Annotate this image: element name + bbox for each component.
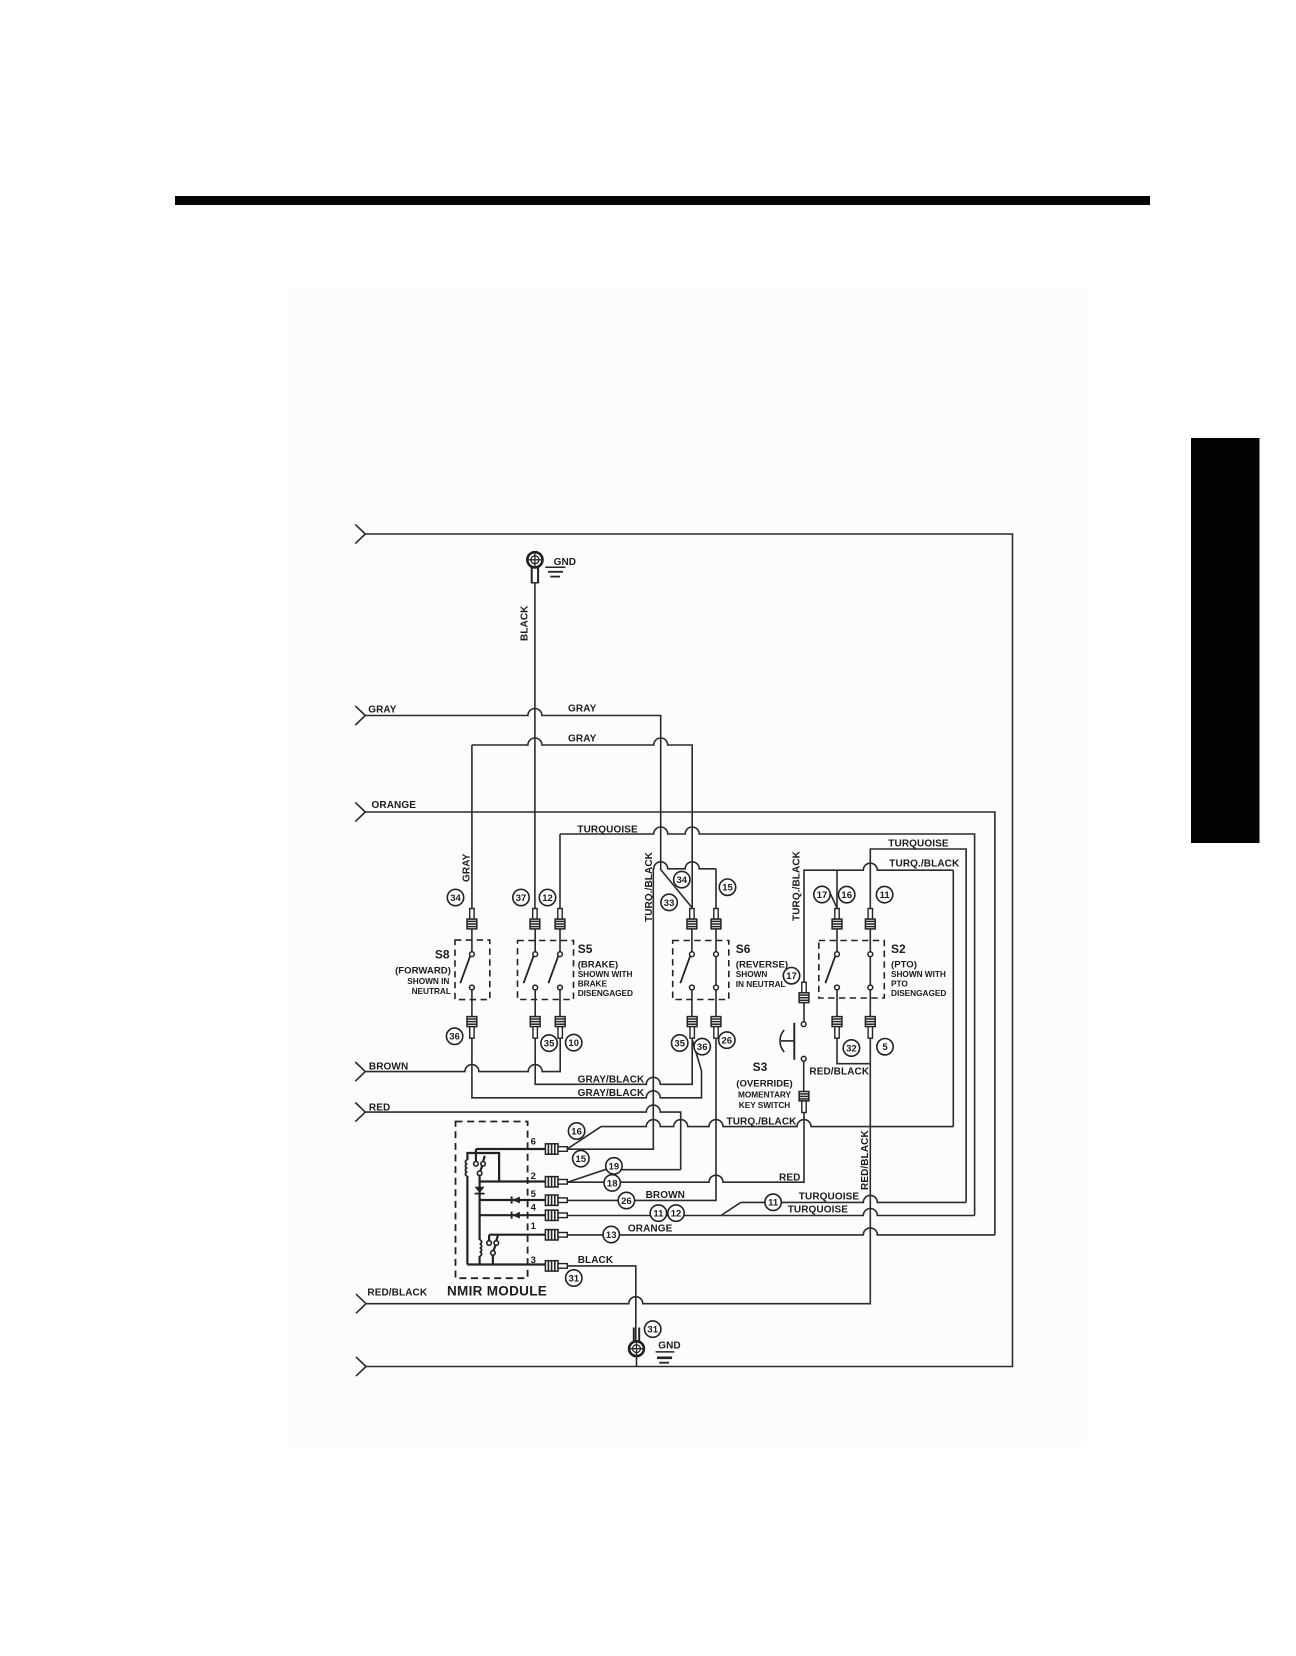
svg-text:16: 16 [841,890,852,901]
svg-text:11: 11 [880,890,891,901]
NMIR diode on pin 4 [512,1212,520,1219]
connector 5 bottom of S2 pole2 [865,1017,875,1039]
wire BLACK from GND to S5 pole1 connector [534,583,536,909]
wire id circle 16 (wire 16 at NMIR pin6) [568,1123,584,1139]
RED entry arrow [355,1103,365,1122]
chapter side tab [1191,438,1260,843]
svg-text:BROWN: BROWN [369,1061,408,1072]
wire RED 19 to NMIR pin2 [568,1170,681,1183]
svg-text:4: 4 [531,1203,537,1214]
wire id circle 12 (wire 12 at NMIR pin4) [668,1205,684,1221]
svg-text:BROWN: BROWN [646,1190,685,1201]
GRAY entry arrow [355,706,365,725]
wire GRAY 1 (entry to S6 pole1, hops BLACK) [365,709,660,871]
NMIR pin 2 connector [545,1177,567,1187]
wire id circle 17 (wire 17 at S2) [814,886,830,902]
connector 12 top of S5 pole2 [555,909,565,929]
wire id circle 13 (wire 13 at NMIR pin1) [603,1226,619,1242]
svg-text:5: 5 [531,1189,537,1200]
svg-text:GRAY/BLACK: GRAY/BLACK [578,1075,645,1086]
wire id circle 15 (wire 15 at NMIR pin6) [573,1150,589,1166]
NMIR diode on pin 5 [512,1196,520,1203]
wire id circle 31 (wire 31 at ground) [645,1321,661,1337]
wire RED entry down to RED 19 run [365,1105,680,1170]
wire id circle 26 (wire 26 at S6 bottom) [719,1032,735,1048]
svg-text:31: 31 [569,1273,580,1284]
svg-text:GRAY: GRAY [368,705,397,716]
wire id circle 15 (wire 15 at S6) [719,879,735,895]
svg-text:1: 1 [531,1221,537,1232]
wire TURQ./BLACK (S6 pole2 down to NMIR pin6) [568,862,717,1149]
wire id circle 11 (wire 11 at S2) [876,886,892,902]
wire RED/BLACK jumper S2 pole1 bottom [837,1039,870,1064]
switch S2 dashed box [819,941,885,999]
svg-text:34: 34 [677,875,688,886]
wire id circle 10 (wire 10 at S5 bottom) [566,1034,582,1050]
ground symbol GND bottom (ring terminal 31) [629,1328,644,1367]
switch S5 dashed box [518,941,574,1000]
NMIR pin 3 bus line [467,1263,545,1265]
svg-text:(OVERRIDE): (OVERRIDE) [736,1079,793,1090]
svg-text:TURQ./BLACK: TURQ./BLACK [644,851,655,922]
wire GRAY/BLACK 2 (S8 bottom to S6 pole1 bottom) [472,1039,702,1098]
NMIR pin 2 line [480,1180,546,1182]
wire TURQUOISE (S2 pole2 loop to NMIR pin4 diagonal) [870,849,966,1202]
svg-text:37: 37 [516,893,527,904]
switch S5 pole 2 [548,929,562,1017]
RED/BLACK entry arrow [356,1294,366,1313]
S3 label block [736,1060,793,1110]
ground symbol GND top (ring terminal) [527,552,542,583]
switch S8 dashed box [455,940,490,1000]
NMIR pin 5 connector [545,1195,567,1205]
harness border wire [365,534,1012,1367]
svg-text:34: 34 [450,893,461,904]
NMIR pin 4 line [480,1214,546,1216]
GND label bottom [656,1341,681,1363]
connector 10 bottom of S5 pole2 [555,1017,565,1039]
wire ORANGE NMIR pin1 run [568,1228,995,1235]
svg-text:36: 36 [697,1042,708,1053]
wire id circle 12 (wire 12 at S5) [539,889,555,905]
svg-text:17: 17 [786,971,797,982]
wire id circle 11 (wire 11 on turquoise run) [765,1194,781,1210]
svg-text:15: 15 [576,1154,587,1165]
svg-text:10: 10 [568,1038,579,1049]
key switch S3 symbol [780,1003,806,1092]
svg-text:36: 36 [449,1032,460,1043]
wire id circle 36 (wire 36 at S8 bottom) [446,1028,462,1044]
wire id circle 34 (wire 34 at S6) [674,871,690,887]
ORANGE entry arrow [355,802,365,821]
wire RED/BLACK entry up to S2 pole2 bottom [366,1039,870,1304]
svg-text:16: 16 [571,1126,582,1137]
wire BLACK NMIR pin3 to ground [568,1266,636,1342]
wire id circle 33 (wire 33 at S6) [661,894,677,910]
border entry arrow bottom [356,1357,366,1376]
wire RED 18 (NMIR pin2 to S3 bottom) [568,1113,805,1183]
svg-text:SHOWN: SHOWN [736,969,768,979]
svg-text:SHOWN WITH: SHOWN WITH [578,969,633,979]
wire id circle 5 (wire 5 at S2 bottom) [877,1039,893,1055]
svg-text:S2: S2 [891,942,906,956]
svg-text:26: 26 [722,1036,733,1047]
svg-text:GRAY: GRAY [568,704,597,715]
svg-text:35: 35 [674,1038,685,1049]
wire id circle 17 (wire 17 at S3) [783,968,799,984]
svg-text:ORANGE: ORANGE [372,800,417,811]
switch S6 pole 2 [714,929,719,1017]
svg-text:35: 35 [544,1039,555,1050]
svg-text:19: 19 [609,1161,620,1172]
wire TURQ./BLACK (S3 / S2 pole1 top run) [804,863,953,982]
wire TURQ./BLACK right vertical [952,870,954,1126]
connector 32 bottom of S2 pole1 [832,1017,842,1039]
svg-text:S5: S5 [578,942,593,956]
svg-text:15: 15 [722,883,733,894]
svg-text:NMIR MODULE: NMIR MODULE [447,1284,547,1299]
wire BROWN (S6 pole2 bottom to NMIR pin5) [568,1039,717,1201]
svg-text:S6: S6 [736,942,751,956]
svg-text:26: 26 [621,1196,632,1207]
svg-text:32: 32 [846,1043,857,1054]
svg-text:6: 6 [531,1137,536,1148]
wire TURQUOISE (S5 pole2 across to right, down to NMIR pin4) [559,834,561,909]
svg-text:TURQUOISE: TURQUOISE [888,838,949,849]
connector 17/16 top of S2 pole1 [832,909,842,929]
wire TURQUOISE NMIR pin4 run [568,1209,975,1216]
svg-text:2: 2 [531,1171,536,1182]
svg-text:RED/BLACK: RED/BLACK [809,1067,869,1078]
scan background tint [288,288,1087,1447]
wire id circle 34 (wire 34 at S8) [447,889,463,905]
NMIR pin 5 line [480,1199,546,1201]
wire GRAY 2 (S8 to S6 pole1, hops BLACK and GRAY1) [472,738,692,908]
svg-text:11: 11 [653,1209,664,1220]
wire ORANGE (entry down to NMIR pin1 line) [365,812,995,1235]
svg-text:PTO: PTO [891,979,908,989]
svg-text:RED: RED [779,1172,800,1183]
border entry arrow top [355,524,365,543]
NMIR relay2 coil branch [479,1200,481,1265]
svg-text:5: 5 [882,1042,888,1053]
S5 label block [578,942,633,998]
wire id circle 35 (wire 35 at S6 bottom) [672,1035,688,1051]
connector 35 bottom of S5 pole1 [530,1017,540,1039]
wire GRAY riser to S8 connector [471,745,473,909]
svg-text:18: 18 [607,1178,618,1189]
svg-text:TURQ./BLACK: TURQ./BLACK [727,1117,798,1128]
NMIR pin 6 line [476,1148,546,1150]
NMIR relay2 contacts [487,1235,499,1265]
wire id circle 18 (wire 18 at NMIR pin2) [604,1175,620,1191]
wire GRAY/BLACK 1 (S5 pole1 bottom to S6 pole1 bottom) [535,1039,692,1085]
svg-text:GRAY/BLACK: GRAY/BLACK [578,1088,645,1099]
S6 label block [736,942,788,989]
wire id circle 26 (wire 26 at NMIR pin5) [618,1192,634,1208]
NMIR pin 4 connector [545,1210,567,1220]
svg-text:BRAKE: BRAKE [578,979,608,989]
NMIR pin 1 line [489,1234,545,1236]
connector 37 top of S5 pole1 [530,909,540,929]
svg-text:S3: S3 [753,1060,768,1074]
BROWN entry arrow [355,1062,365,1081]
switch S2 pole 2 [868,929,873,1017]
switch S8 pole [460,929,474,1017]
svg-text:S8: S8 [435,948,450,962]
svg-text:BLACK: BLACK [520,605,531,641]
connector 17 above S3 [799,982,809,1002]
NMIR MODULE dashed box [456,1122,528,1279]
svg-text:31: 31 [647,1325,658,1336]
page top rule [175,196,1150,205]
svg-text:RED/BLACK: RED/BLACK [860,1130,871,1190]
svg-text:TURQUOISE: TURQUOISE [788,1204,849,1215]
svg-text:MOMENTARY: MOMENTARY [738,1089,792,1099]
svg-text:BLACK: BLACK [578,1255,614,1266]
S8 label block [395,948,451,996]
svg-text:SHOWN WITH: SHOWN WITH [891,969,946,979]
svg-text:GND: GND [658,1341,681,1352]
wire id circle 36 (wire 36 at S6 bottom) [694,1038,710,1054]
svg-text:KEY SWITCH: KEY SWITCH [739,1100,790,1110]
wire TURQ./BLACK long bottom run to NMIR pin6 [567,1120,954,1150]
wire GRAY 1 diagonal into S6 pole1 [661,870,692,908]
connector 35/36 bottom of S6 pole1 [687,1017,697,1039]
NMIR pin 3 connector [545,1261,567,1271]
svg-text:GRAY: GRAY [462,853,473,882]
svg-text:GND: GND [554,557,577,568]
svg-text:TURQUOISE: TURQUOISE [799,1192,860,1203]
svg-text:TURQUOISE: TURQUOISE [577,824,638,835]
S2 pole1 riser [828,870,837,908]
svg-text:SHOWN IN: SHOWN IN [407,976,449,986]
switch S5 pole 1 [524,929,538,1017]
svg-text:13: 13 [606,1230,617,1241]
wire TURQUOISE diagonal branch pin4 [721,1202,741,1215]
connector 36 bottom of S8 [467,1017,477,1039]
svg-text:TURQ./BLACK: TURQ./BLACK [889,859,960,870]
svg-text:GRAY: GRAY [568,733,597,744]
svg-text:RED/BLACK: RED/BLACK [367,1288,427,1299]
svg-text:3: 3 [531,1255,536,1266]
svg-text:ORANGE: ORANGE [628,1224,673,1235]
connector 33/34 top of S6 pole1 [687,909,697,929]
wire id circle 32 (wire 32 at S2 bottom) [843,1040,859,1056]
connector 34 top of S8 [467,909,477,929]
GND label top [545,557,576,577]
svg-text:33: 33 [664,898,675,909]
switch S6 pole 1 [680,929,694,1017]
connector 11 top of S2 pole2 [865,909,875,929]
svg-text:DISENGAGED: DISENGAGED [578,988,633,998]
wire id circle 37 (wire 37 at S5) [513,889,529,905]
svg-text:TURQ./BLACK: TURQ./BLACK [792,850,803,921]
svg-text:NEUTRAL: NEUTRAL [412,986,451,996]
svg-text:IN NEUTRAL: IN NEUTRAL [736,979,786,989]
wire id circle 16 (wire 16 at S2) [839,886,855,902]
S2 label block [891,942,946,998]
wire id circle 19 (wire 19 at NMIR pin2) [606,1158,622,1174]
svg-text:DISENGAGED: DISENGAGED [891,988,946,998]
NMIR pin 6 connector [545,1144,567,1154]
switch S2 pole 1 [825,929,839,1017]
wire BROWN entry to S5 pole2 bottom [365,1039,560,1072]
svg-text:12: 12 [671,1209,682,1220]
connector 26 bottom of S6 pole2 [711,1017,721,1039]
svg-text:17: 17 [817,890,828,901]
connector 15 top of S6 pole2 [711,909,721,929]
NMIR relay1 contacts [474,1149,486,1182]
switch S6 dashed box [673,941,729,1000]
wire id circle 35 (wire 35 at S5 bottom) [541,1035,557,1051]
connector below S3 [799,1092,809,1113]
wire id circle 31 (wire 31 at NMIR pin3) [566,1270,582,1286]
wire id circle 11 (wire 11 at NMIR pin4) [650,1205,666,1221]
NMIR pin 1 connector [545,1230,567,1240]
svg-text:11: 11 [768,1198,779,1209]
NMIR relay1 coil left branch [467,1153,499,1265]
svg-text:12: 12 [542,893,553,904]
NMIR zener diode vertical [475,1182,485,1201]
